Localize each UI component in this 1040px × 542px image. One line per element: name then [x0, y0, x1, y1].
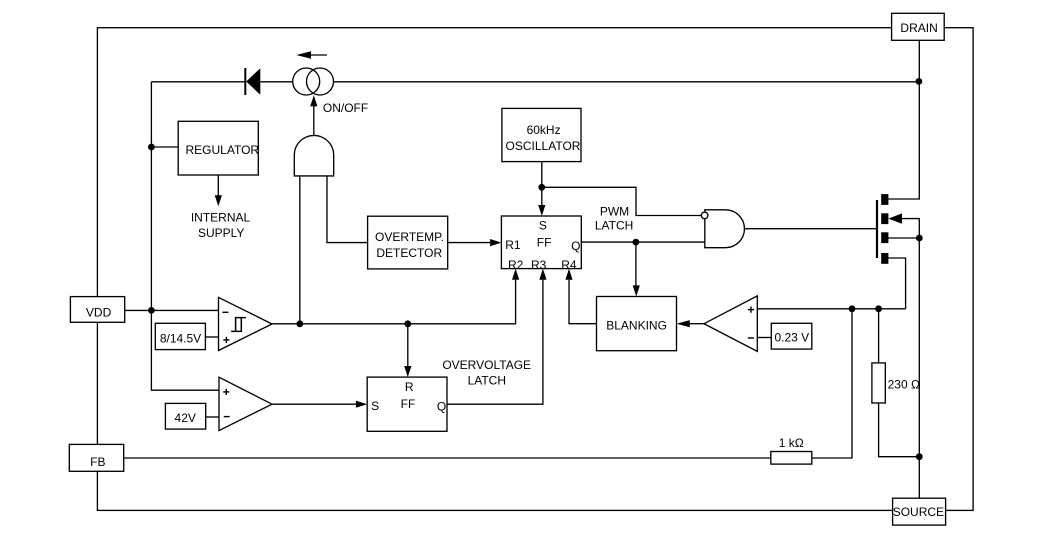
svg-text:INTERNAL: INTERNAL: [191, 211, 251, 225]
wire blanking to R4: [565, 269, 596, 324]
wire overvoltage Q to R3: [447, 269, 547, 405]
svg-text:Q: Q: [437, 400, 446, 414]
svg-text:S: S: [539, 218, 547, 232]
svg-text:60kHz: 60kHz: [527, 123, 561, 137]
wire diode to current source: [260, 81, 293, 83]
reference 8/14.5V box: [155, 323, 205, 349]
reference 0.23V box: [771, 323, 812, 349]
wire oscillator to S input: [538, 162, 545, 216]
minus sign U7: [224, 416, 230, 418]
wire overtemp to R1: [448, 239, 502, 246]
svg-text:R: R: [405, 380, 414, 394]
label PWM LATCH: [595, 205, 633, 233]
plus sign U5: [748, 307, 754, 313]
current source I1: [293, 68, 334, 95]
node Q blanking tap: [633, 239, 640, 246]
AND gate U2 on/off: [294, 135, 333, 176]
comparator U5 blanking: [704, 296, 757, 352]
wire regulator input: [151, 146, 178, 148]
wire comparator to blanking: [677, 320, 705, 327]
svg-text:R1: R1: [505, 238, 521, 252]
wire NAND output to MOSFET gate: [744, 228, 876, 230]
node FB sense: [849, 305, 856, 312]
node regulator tap: [148, 144, 155, 151]
svg-text:BLANKING: BLANKING: [606, 318, 667, 332]
overvoltage latch flip-flop U8: [367, 377, 447, 431]
reference 42V box: [165, 403, 205, 429]
wire mosfet substrate: [888, 237, 920, 239]
svg-text:Q: Q: [571, 239, 580, 253]
current direction arrow: [296, 51, 327, 59]
svg-text:0.23 V: 0.23 V: [774, 330, 809, 344]
svg-text:FF: FF: [537, 236, 552, 250]
svg-text:S: S: [371, 399, 379, 413]
wire 0.23V to minus input: [757, 337, 771, 339]
svg-text:DETECTOR: DETECTOR: [376, 246, 442, 260]
wire 42V comparator to S input: [272, 401, 367, 408]
node gate leg: [296, 320, 303, 327]
node 230ohm top: [875, 305, 882, 312]
node drain bus: [916, 78, 923, 85]
svg-text:REGULATOR: REGULATOR: [186, 143, 260, 157]
wire VDD to hysteresis comparator minus: [125, 309, 219, 311]
svg-text:LATCH: LATCH: [468, 374, 506, 388]
svg-text:FF: FF: [401, 397, 416, 411]
wire Q output to NAND bottom input: [581, 241, 705, 243]
label INTERNAL SUPPLY: [191, 211, 251, 240]
svg-text:DRAIN: DRAIN: [900, 21, 937, 35]
plus sign U6: [223, 337, 229, 343]
wire overvoltage R input: [404, 324, 411, 377]
plus sign U7: [223, 389, 229, 395]
pin box DRAIN: [892, 13, 945, 40]
wire ON/OFF arrow into current source: [310, 95, 317, 135]
oscillator block: [502, 108, 581, 161]
svg-text:42V: 42V: [175, 411, 196, 425]
svg-text:LATCH: LATCH: [595, 218, 633, 232]
wire oscillator to NAND top input: [542, 187, 702, 215]
svg-text:PWM: PWM: [600, 205, 629, 219]
svg-text:OSCILLATOR: OSCILLATOR: [506, 139, 581, 153]
svg-text:OVERTEMP.: OVERTEMP.: [375, 230, 444, 244]
hysteresis symbol: [231, 318, 246, 332]
MOSFET Q1: [877, 194, 902, 264]
node mosfet source: [916, 235, 923, 242]
wire mosfet source vertical: [902, 219, 920, 499]
resistor R5 230ohm: [872, 309, 919, 457]
pin box VDD: [70, 297, 124, 323]
minus sign U5: [748, 337, 754, 339]
wire 42V to minus input: [206, 416, 219, 418]
node oscillator tap: [538, 184, 545, 191]
comparator U6 hysteresis: [219, 297, 273, 350]
wire sense tap: [888, 258, 906, 309]
regulator block: [178, 121, 259, 175]
overtemp detector block: [368, 216, 448, 269]
svg-text:R3: R3: [531, 258, 547, 272]
NAND gate U4: [701, 210, 744, 248]
wire gate right leg to overtemp detector: [327, 176, 368, 243]
svg-text:SUPPLY: SUPPLY: [198, 226, 244, 240]
pin box SOURCE: [893, 498, 946, 525]
node source join: [916, 453, 923, 460]
label OVERVOLTAGE LATCH: [442, 358, 531, 388]
wire current sense bus y=308.5: [757, 308, 905, 310]
wire comparator output bus y=324: [272, 269, 519, 324]
pin box FB: [69, 444, 123, 471]
svg-text:SOURCE: SOURCE: [893, 505, 944, 519]
svg-text:8/14.5V: 8/14.5V: [160, 332, 201, 346]
wire gate left leg to comparator output: [299, 176, 301, 324]
node VDD tap: [148, 307, 155, 314]
PWM latch flip-flop U3: [501, 216, 581, 272]
comparator U7 42V: [219, 377, 272, 430]
wire top bus y=82: [151, 81, 245, 83]
minus sign U6: [223, 311, 229, 313]
wire current source to drain node: [333, 81, 919, 83]
node OV R tap: [404, 320, 411, 327]
wire 8/14.5V to plus input: [205, 336, 218, 338]
IC boundary: [97, 28, 973, 511]
wire left vertical rail: [151, 82, 218, 390]
svg-text:VDD: VDD: [86, 305, 112, 319]
blanking block: [597, 297, 677, 351]
svg-text:OVERVOLTAGE: OVERVOLTAGE: [442, 358, 531, 372]
svg-text:FB: FB: [90, 455, 105, 469]
arrow internal supply: [215, 175, 222, 206]
resistor R6 1kohm: [124, 309, 852, 464]
diode D1: [245, 68, 260, 95]
svg-text:230 Ω: 230 Ω: [888, 377, 920, 391]
svg-text:ON/OFF: ON/OFF: [323, 101, 368, 115]
wire Q node to blanking: [633, 242, 640, 296]
svg-text:1 kΩ: 1 kΩ: [779, 436, 804, 450]
wire drain vertical: [888, 40, 920, 199]
